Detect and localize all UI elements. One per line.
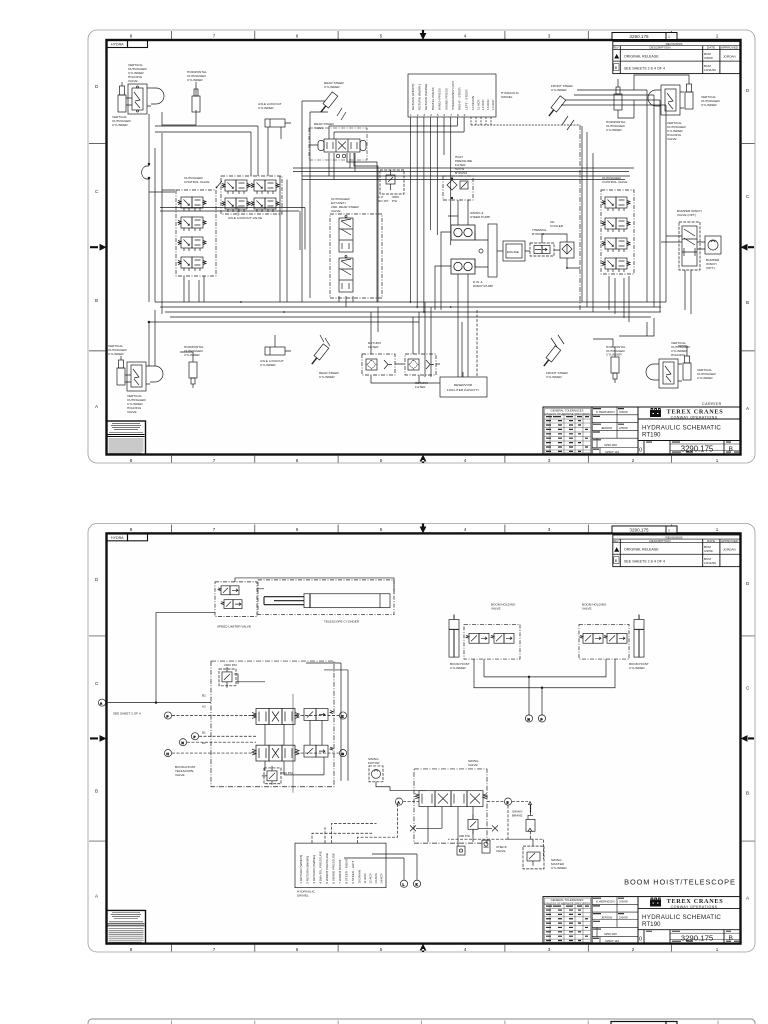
vertical outrigger cylinder label (left)	[112, 115, 132, 127]
svg-text:11 ACR: 11 ACR	[476, 99, 480, 110]
relief valve block C-P	[380, 170, 404, 194]
hydraulic swivel box (sheet1)	[408, 74, 496, 117]
wires BL	[148, 310, 155, 366]
drop lines to filters/reservoir	[371, 302, 431, 377]
hose loop arc TL	[151, 88, 164, 104]
telescope cylinder	[264, 594, 390, 608]
svg-text:CONTROL VALVE: CONTROL VALVE	[184, 180, 209, 184]
svg-text:COOLER: COOLER	[550, 224, 564, 228]
scan streak artifact sheet1	[237, 206, 239, 216]
holding valve bus wires	[474, 659, 615, 715]
horizontal outrigger cylinder BR label	[606, 345, 626, 357]
axle lockout cylinder (bottom)	[265, 335, 291, 355]
svg-text:B2: B2	[202, 694, 206, 698]
outrigger control valve label (right)	[602, 176, 627, 184]
svg-text:N: N	[528, 717, 530, 721]
rear steer valve	[318, 139, 366, 158]
svg-text:FILTER: FILTER	[368, 345, 379, 349]
thermal bypass valve	[530, 243, 554, 256]
swing valve label	[468, 759, 479, 767]
svg-text:VALVE: VALVE	[468, 763, 478, 767]
outrigger valve module 1	[178, 197, 206, 211]
svg-text:RD.157: RD.157	[378, 199, 389, 203]
boom-hoist telescope valve label	[175, 765, 196, 777]
lever symbol	[216, 181, 222, 188]
svg-text:4: 4	[430, 113, 432, 117]
circle P2	[191, 733, 198, 740]
circle L	[400, 880, 407, 887]
vertical outrigger cylinder (top left)	[118, 82, 126, 112]
oil cooler	[560, 242, 574, 258]
circle N lower	[525, 715, 532, 722]
boom holding valve label left	[491, 603, 516, 611]
svg-text:(OPT.): (OPT.)	[706, 266, 715, 270]
vertical outrigger cylinder label BL (above)	[108, 344, 128, 356]
svg-text:RETURN (SWING): RETURN (SWING)	[424, 84, 428, 110]
svg-text:VALVE: VALVE	[128, 79, 138, 83]
return filter right label	[415, 381, 428, 389]
svg-text:VALVE: VALVE	[175, 773, 185, 777]
svg-text:VALVE: VALVE	[667, 137, 677, 141]
swing leaders	[403, 801, 528, 803]
svg-text:BRAKE: BRAKE	[512, 813, 522, 817]
circle K	[413, 880, 420, 887]
svg-text:CYLINDER: CYLINDER	[606, 353, 622, 357]
svg-text:CYLINDER: CYLINDER	[551, 88, 567, 92]
svg-text:RESERVOIR: RESERVOIR	[454, 383, 473, 387]
front steer cylinder label (top)	[551, 84, 574, 92]
thermal-cooler junction	[566, 267, 568, 269]
outrigger valve module 4	[178, 257, 206, 271]
right outrigger valve module 4	[602, 258, 630, 272]
svg-text:TELESCOPE CYLINDER: TELESCOPE CYLINDER	[324, 619, 360, 623]
hydraulic swivel label	[501, 91, 520, 99]
svg-text:9 STEER - LEFT: 9 STEER - LEFT	[351, 861, 355, 884]
vert outrigger cylinder label BR	[697, 368, 717, 380]
svg-text:2: 2	[417, 113, 419, 117]
svg-text:2400 PSI: 2400 PSI	[224, 663, 237, 667]
vertical outrigger cylinder (bottom left)	[117, 356, 125, 385]
holding module L1	[466, 633, 489, 643]
speed limiter module lower	[221, 600, 242, 609]
svg-text:CYLINDER: CYLINDER	[606, 128, 622, 132]
check valve label	[496, 845, 508, 853]
svg-text:VALVE (OPT.): VALVE (OPT.)	[677, 213, 696, 217]
swivel port numbers	[410, 113, 466, 117]
holding valve BL	[125, 362, 150, 391]
boom hoist/telescope valve enclosure	[211, 661, 334, 787]
drain dash-dot boundary	[579, 125, 581, 310]
svg-text:12 ACP: 12 ACP	[481, 100, 485, 111]
svg-text:P: P	[167, 714, 169, 718]
svg-text:CYLINDER: CYLINDER	[187, 78, 203, 82]
outrigger valve module 2	[178, 217, 206, 231]
check valve	[482, 840, 490, 853]
relief labels	[378, 195, 399, 203]
reservoir	[440, 377, 487, 397]
swing brake master cylinder	[508, 839, 544, 869]
filter to reservoir wires	[371, 364, 463, 383]
holding module L2	[491, 633, 514, 643]
svg-text:3: 3	[423, 113, 425, 117]
bumper winch valve label	[677, 209, 702, 217]
telescope spool (upper 4-way)	[252, 709, 299, 725]
swivel2 port labels	[299, 851, 384, 883]
rear steer cylinder label (top)	[324, 81, 345, 89]
svg-text:6: 6	[444, 113, 446, 117]
vertical outrigger cylinder BR holding valve	[659, 359, 682, 388]
swivel port labels	[411, 81, 495, 110]
svg-text:ENGINE: ENGINE	[507, 250, 519, 254]
2nd rear steer valve spool lower	[339, 256, 353, 293]
svg-text:SEE SHEET 2 OF 4: SEE SHEET 2 OF 4	[113, 712, 141, 716]
svg-text:CYLINDER: CYLINDER	[450, 666, 466, 670]
rear steer cylinder (bottom diagonal)	[309, 344, 329, 366]
svg-text:2 RETURN (8W/8R): 2 RETURN (8W/8R)	[305, 856, 309, 884]
svg-text:CYLINDER: CYLINDER	[546, 375, 562, 379]
svg-text:300 PSI: 300 PSI	[459, 834, 470, 838]
outrigger valve module 3	[178, 237, 206, 251]
swing motor	[369, 766, 383, 782]
svg-text:A1: A1	[202, 741, 206, 745]
hose loop arc BR	[646, 364, 659, 380]
axle lockout cylinder (top)	[265, 119, 291, 127]
lower horizontal bus lines	[149, 302, 666, 322]
upper horizontal bus lines	[155, 126, 634, 302]
svg-text:B: B	[506, 801, 508, 805]
brake circuit dash lines	[448, 806, 544, 859]
swing brake label	[512, 809, 523, 817]
svg-text:5: 5	[437, 113, 439, 117]
svg-text:L: L	[403, 883, 405, 887]
svg-text:VALVE: VALVE	[127, 410, 137, 414]
thermal bypass label	[532, 228, 547, 236]
horizontal outrigger cylinder BL	[180, 352, 197, 388]
horizontal outrigger cylinder BL label	[184, 345, 204, 357]
circle E	[339, 712, 346, 719]
300 psi relief	[468, 814, 478, 834]
svg-text:N: N	[182, 741, 184, 745]
return filter left	[362, 354, 395, 375]
svg-text:CYLINDER: CYLINDER	[629, 666, 645, 670]
svg-text:SWIVEL: SWIVEL	[297, 894, 309, 898]
3000 psi relief	[262, 766, 281, 785]
svg-text:1100 LITER CAPACITY: 1100 LITER CAPACITY	[447, 388, 479, 392]
svg-text:STEER/WINCH OUT: STEER/WINCH OUT	[451, 81, 455, 110]
svg-text:8 STEER - RIGHT: 8 STEER - RIGHT	[344, 859, 348, 884]
hoist spool (lower 4-way)	[252, 745, 299, 761]
svg-text:9: 9	[464, 113, 466, 117]
circle A	[395, 798, 402, 805]
small gauge box	[457, 846, 465, 855]
axle lockout valve cluster	[221, 176, 282, 214]
svg-text:13 ACR: 13 ACR	[374, 872, 378, 883]
hydraulic swivel label2	[297, 890, 316, 898]
sheet 3 zone ticks	[171, 1021, 718, 1024]
winch valve wires	[661, 236, 705, 314]
dash leaders to spools	[172, 715, 339, 753]
front steer cylinder label (bottom)	[546, 371, 569, 379]
svg-text:SWIVEL: SWIVEL	[501, 95, 513, 99]
svg-text:CYLINDER: CYLINDER	[701, 103, 717, 107]
holding valve label BR	[671, 341, 691, 357]
pump drive gearbox	[475, 224, 497, 277]
svg-text:CYLINDER: CYLINDER	[551, 866, 567, 870]
axle lockout valve module B	[251, 180, 279, 194]
swivel dashed drain bus	[471, 124, 580, 126]
svg-text:CYLINDER: CYLINDER	[108, 352, 124, 356]
rear steer valve enclosure	[309, 128, 367, 160]
svg-text:5 WINCH PRESSURE: 5 WINCH PRESSURE	[325, 853, 329, 884]
circle B	[504, 798, 511, 805]
2400 psi relief	[219, 667, 238, 688]
svg-text:11 ACR: 11 ACR	[363, 873, 367, 884]
dw & winch pump label	[473, 280, 493, 288]
pump suction wires	[435, 200, 477, 377]
rear steer valve wires	[329, 126, 355, 180]
valve riser wires	[236, 663, 348, 781]
svg-text:VALVE: VALVE	[491, 607, 501, 611]
plugged port X left	[410, 825, 416, 831]
horizontal outrigger cylinder TR	[614, 83, 634, 118]
speed limiter valve enclosure	[215, 582, 257, 617]
svg-text:14 ACP: 14 ACP	[491, 100, 495, 111]
horizontal outrigger cylinder label (top)	[187, 70, 207, 82]
svg-text:1: 1	[410, 113, 412, 117]
outrigger ext/ret 2nd rear steer valve label	[331, 197, 359, 213]
svg-text:12 ACP: 12 ACP	[368, 873, 372, 883]
circle P lower	[538, 715, 545, 722]
circle G	[339, 750, 346, 757]
scan streak artifact	[292, 694, 294, 793]
boom holding valve left enclosure	[464, 624, 520, 659]
vertical outrigger cylinder TR holding valve	[661, 85, 684, 115]
svg-text:HOLDING: HOLDING	[671, 353, 686, 357]
wire trunk left	[148, 110, 196, 314]
right outrigger valve module 2	[602, 218, 630, 232]
boom hoist cylinder left	[449, 615, 459, 658]
svg-text:BW/TEL PRESS: BW/TEL PRESS	[431, 87, 435, 110]
right side connecting wires	[582, 100, 654, 336]
boom holding valve right enclosure	[579, 624, 629, 659]
dw & winch pump	[451, 259, 475, 274]
sheet 3 top edge	[88, 1019, 755, 1024]
boom hoist cylinder right label	[629, 662, 649, 670]
reservoir label	[447, 383, 479, 392]
svg-text:CARRIER: CARRIER	[702, 402, 722, 406]
svg-text:PSI: PSI	[392, 199, 397, 203]
sheet 3 dwg number box	[611, 1022, 677, 1024]
high pressure filter label	[455, 155, 472, 175]
oil cooler label	[550, 220, 564, 228]
svg-text:WINCH PRESS: WINCH PRESS	[438, 88, 442, 110]
svg-text:RETURN (8W/8R.): RETURN (8W/8R.)	[418, 84, 422, 110]
swing & steer pump	[451, 225, 475, 240]
right trunk verticals	[561, 90, 666, 312]
port labels B2 A2	[202, 694, 206, 745]
svg-text:CYLINDER: CYLINDER	[260, 363, 276, 367]
svg-text:CYLINDER: CYLINDER	[184, 353, 200, 357]
holding valve label BL (below)	[127, 394, 147, 414]
svg-text:VALVE: VALVE	[582, 607, 592, 611]
rear steer cylinder (top diagonal)	[318, 92, 338, 114]
axle lockout valve module C	[222, 198, 250, 212]
circle H	[164, 750, 171, 757]
svg-text:LEFT - STEER: LEFT - STEER	[464, 89, 468, 110]
svg-text:CYLINDER: CYLINDER	[324, 85, 340, 89]
svg-text:1 RETURN (WINCH): 1 RETURN (WINCH)	[299, 855, 303, 884]
wire from circle to valve	[106, 613, 215, 704]
swing valve enclosure	[414, 769, 487, 843]
right outrigger valve module 3	[602, 238, 630, 252]
circle N	[179, 739, 186, 746]
svg-text:7 WINCH BOOST: 7 WINCH BOOST	[338, 859, 342, 884]
swing brake	[526, 802, 535, 832]
svg-text:3000 PSI: 3000 PSI	[280, 771, 293, 775]
circle P upper	[164, 712, 171, 719]
svg-text:4 BW+TEL PRESSURE: 4 BW+TEL PRESSURE	[318, 851, 322, 883]
svg-text:7: 7	[450, 113, 452, 117]
front steer cylinder (bottom diagonal)	[541, 346, 561, 368]
engine to cooler wires	[525, 234, 580, 268]
hose loop arc BL	[150, 366, 163, 382]
swivel drop lines	[411, 117, 492, 312]
svg-text:CONTROL VALVE: CONTROL VALVE	[602, 180, 627, 184]
svg-text:MOTOR: MOTOR	[368, 761, 380, 765]
svg-text:STEER PUMP: STEER PUMP	[470, 215, 490, 219]
boom holding valve label right	[582, 603, 607, 611]
front steer cylinder (top diagonal)	[546, 96, 566, 118]
2nd rear steer valve spool upper	[339, 216, 353, 253]
holding module R2	[604, 633, 627, 643]
rear steer valve label	[314, 122, 335, 130]
holding module R1	[580, 633, 603, 643]
svg-text:P: P	[541, 717, 543, 721]
right outrigger valve module 1	[602, 197, 630, 211]
horizontal outrigger cylinder (top left)	[192, 87, 200, 112]
hose loop arc TR	[648, 90, 661, 106]
wire from speed limiter top to cylinder	[235, 578, 394, 594]
svg-text:14 ACP: 14 ACP	[379, 873, 383, 883]
bumper winch motor	[705, 236, 721, 254]
hydraulic swivel box (sheet2)	[295, 843, 386, 888]
swing master cylinder label	[551, 858, 567, 870]
svg-text:CYLINDER: CYLINDER	[258, 106, 274, 110]
vertical outrigger cylinder TR	[685, 80, 693, 109]
svg-text:SWING PRESS: SWING PRESS	[444, 88, 448, 110]
svg-text:H: H	[167, 752, 169, 756]
swing valve spool	[415, 791, 487, 807]
svg-text:FILTER: FILTER	[415, 385, 426, 389]
holding valve label TR	[667, 121, 687, 141]
return filter left label	[368, 341, 381, 349]
svg-text:P: P	[194, 735, 196, 739]
horizontal outrigger cylinder TR label	[606, 120, 626, 132]
high pressure filter	[443, 176, 473, 200]
svg-text:B1: B1	[202, 730, 206, 734]
2nd rear steer valve dash enclosure	[330, 214, 382, 298]
svg-text:CYLINDER: CYLINDER	[319, 375, 335, 379]
center steering wires	[196, 75, 689, 352]
outrigger control valve left dash-dot enclosure	[176, 190, 216, 276]
svg-text:VALVE: VALVE	[496, 849, 506, 853]
svg-text:E: E	[342, 714, 344, 718]
svg-text:3 RETURN (SWING): 3 RETURN (SWING)	[312, 855, 316, 884]
rear steer cylinder label (bottom)	[319, 371, 340, 379]
plugged port X right	[492, 825, 498, 831]
hose loop arc left mid	[142, 166, 149, 179]
svg-text:CYLINDER: CYLINDER	[697, 376, 713, 380]
see sheet circle	[98, 699, 105, 706]
svg-text:WINCH PUMP: WINCH PUMP	[473, 284, 493, 288]
hoist comp module lower	[304, 745, 333, 757]
svg-text:13 ACR: 13 ACR	[486, 99, 490, 110]
svg-text:A2: A2	[202, 705, 206, 709]
svg-text:RETURN (WINCH): RETURN (WINCH)	[411, 84, 415, 110]
vert outrigger cylinder label TR	[701, 95, 721, 107]
svg-text:8: 8	[457, 113, 459, 117]
telescope comp module upper	[304, 709, 333, 721]
holding valve TL	[126, 84, 151, 114]
svg-text:BOOM HOIST/TELESCOPE: BOOM HOIST/TELESCOPE	[624, 878, 736, 887]
boom hoist cylinder right	[634, 615, 644, 658]
vertical outrigger cylinder BR	[683, 352, 691, 380]
swivel2 riser wires	[312, 804, 417, 880]
svg-text:VALVE: VALVE	[331, 209, 341, 213]
bumper winch valve	[679, 222, 700, 270]
swing motor label	[368, 757, 380, 765]
axle lockout valve module D	[251, 198, 279, 212]
svg-text:10 DRAIN: 10 DRAIN	[357, 870, 361, 884]
axle lockout cylinder label (bottom)	[260, 359, 284, 367]
svg-text:SPEED LIMITER VALVE: SPEED LIMITER VALVE	[217, 624, 251, 628]
return filter right	[405, 354, 436, 375]
svg-text:AXLE LOCKOUT VALVE: AXLE LOCKOUT VALVE	[228, 216, 262, 220]
engine	[497, 241, 525, 261]
swing & steer pump label	[470, 211, 490, 219]
bumper winch (opt) label	[706, 258, 720, 270]
svg-text:RIGHT - STEER: RIGHT - STEER	[458, 87, 462, 110]
svg-text:BYPASS: BYPASS	[455, 171, 467, 175]
boom hoist cylinder left label	[450, 662, 470, 670]
vertical outrigger cylinder holding valve label (top left)	[128, 63, 148, 83]
speed limiter module upper	[218, 586, 239, 595]
outrigger control valve label (left)	[184, 176, 209, 184]
svg-text:10 DRAIN: 10 DRAIN	[471, 96, 475, 110]
wires from control valve to bus	[155, 148, 204, 302]
svg-text:6 SWING PRESSURE: 6 SWING PRESSURE	[331, 853, 335, 884]
axle lockout cylinder label (top)	[258, 102, 282, 110]
telescope cylinder enclosure	[258, 580, 394, 615]
bus junction dots	[240, 301, 452, 313]
swing circuit wires	[376, 782, 492, 846]
horizontal outrigger cylinder BR	[611, 347, 619, 383]
outrigger control valve right enclosure	[601, 190, 634, 274]
svg-text:CYLINDER: CYLINDER	[112, 123, 128, 127]
axle lockout valve module A	[222, 180, 250, 194]
